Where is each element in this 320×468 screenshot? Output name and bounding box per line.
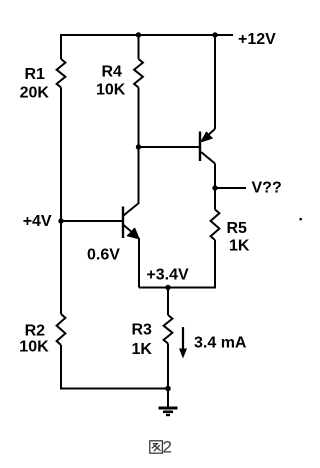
svg-text:20K: 20K <box>20 85 50 102</box>
resistor R4 <box>134 59 143 88</box>
wire left rail top lead <box>60 34 62 59</box>
wire left rail bottom lead <box>60 345 62 389</box>
node junction dot ground <box>165 386 171 392</box>
node junction dot V?? <box>212 185 217 190</box>
svg-text:R3: R3 <box>132 322 153 339</box>
wire Q1 base from +4V node <box>61 220 123 222</box>
node junction dot top R4 <box>136 32 141 37</box>
wire Q2 collector down to V?? node and R5 <box>214 164 216 210</box>
resistor R1 <box>57 59 66 88</box>
current arrow 3.4 mA <box>179 327 187 359</box>
wire ground stem <box>167 389 169 408</box>
wire R4 top lead <box>138 35 140 59</box>
svg-text:R2: R2 <box>25 323 46 340</box>
transistor Q1 (NPN) <box>123 204 139 239</box>
svg-text:0.6V: 0.6V <box>87 247 120 264</box>
node junction dot Q2 base <box>136 144 141 149</box>
transistor Q2 (PNP) <box>200 129 215 164</box>
wire top +12V rail <box>61 34 233 36</box>
stray dot <box>300 218 302 220</box>
wire bottom <box>60 388 168 390</box>
svg-text:R4: R4 <box>102 64 123 81</box>
node junction dot top Q2 emitter <box>212 32 217 37</box>
svg-text:+4V: +4V <box>23 213 52 230</box>
wire R5 bottom lead to +3.4V wire <box>214 240 216 288</box>
wire R4 to Q1 collector <box>138 88 140 205</box>
wire R3 bottom lead <box>167 344 169 389</box>
wire Q2 emitter from +12V rail <box>214 34 216 129</box>
svg-text:+3.4V: +3.4V <box>146 267 189 284</box>
svg-text:V??: V?? <box>252 180 282 197</box>
svg-text:2: 2 <box>163 438 172 457</box>
resistor R3 <box>164 315 173 344</box>
ground <box>159 408 178 415</box>
wire V?? stub <box>215 187 246 189</box>
svg-text:10K: 10K <box>19 339 49 356</box>
wire +3.4V node horizontal <box>139 287 216 289</box>
wire Q2 base from node <box>139 146 201 148</box>
svg-text:1K: 1K <box>229 238 250 255</box>
svg-text:R5: R5 <box>227 220 248 237</box>
node junction dot +3.4V <box>165 285 170 290</box>
svg-text:3.4 mA: 3.4 mA <box>194 335 247 352</box>
svg-text:+12V: +12V <box>238 31 276 48</box>
caption figure 图2 <box>150 438 172 457</box>
svg-text:1K: 1K <box>132 341 153 358</box>
svg-text:10K: 10K <box>96 82 126 99</box>
resistor R5 <box>211 210 220 241</box>
svg-text:R1: R1 <box>25 66 46 83</box>
wire left rail middle <box>60 88 62 315</box>
wire R3 top lead <box>167 288 169 316</box>
wire Q1 emitter vertical <box>138 238 140 288</box>
node junction dot +4V <box>58 218 63 223</box>
resistor R2 <box>57 314 66 345</box>
